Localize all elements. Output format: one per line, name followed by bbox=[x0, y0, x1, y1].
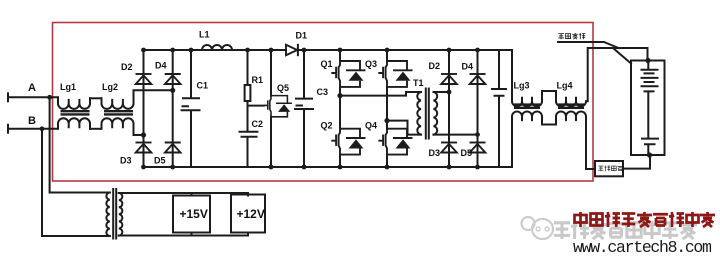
svg-text:Q5: Q5 bbox=[277, 83, 289, 93]
svg-text:C1: C1 bbox=[197, 81, 209, 91]
svg-text:R1: R1 bbox=[252, 75, 264, 85]
svg-text:Q1: Q1 bbox=[321, 59, 333, 69]
svg-text:Lg4: Lg4 bbox=[557, 81, 573, 91]
svg-text:Lg1: Lg1 bbox=[60, 82, 76, 92]
svg-text:+15V: +15V bbox=[180, 207, 208, 221]
svg-text:D3: D3 bbox=[120, 156, 132, 166]
svg-text:D2: D2 bbox=[429, 61, 441, 71]
svg-text:+12V: +12V bbox=[237, 207, 265, 221]
svg-text:C2: C2 bbox=[252, 119, 264, 129]
svg-text:Lg3: Lg3 bbox=[514, 81, 530, 91]
svg-text:D1: D1 bbox=[296, 31, 308, 41]
svg-text:D5: D5 bbox=[461, 148, 473, 158]
svg-text:Q4: Q4 bbox=[365, 121, 377, 131]
svg-text:D2: D2 bbox=[121, 62, 133, 72]
svg-text:C3: C3 bbox=[317, 87, 329, 97]
svg-text:T1: T1 bbox=[413, 78, 424, 88]
svg-text:B: B bbox=[28, 115, 36, 127]
svg-text:D4: D4 bbox=[155, 61, 167, 71]
svg-text:A: A bbox=[28, 82, 36, 94]
svg-text:Lg2: Lg2 bbox=[102, 82, 118, 92]
svg-text:Q2: Q2 bbox=[321, 121, 333, 131]
svg-text:D3: D3 bbox=[429, 148, 441, 158]
svg-text:www.cartech8.com: www.cartech8.com bbox=[573, 238, 712, 257]
svg-text:D5: D5 bbox=[154, 156, 166, 166]
svg-text:L1: L1 bbox=[199, 30, 210, 40]
svg-text:D4: D4 bbox=[462, 62, 474, 72]
svg-text:Q3: Q3 bbox=[365, 59, 377, 69]
